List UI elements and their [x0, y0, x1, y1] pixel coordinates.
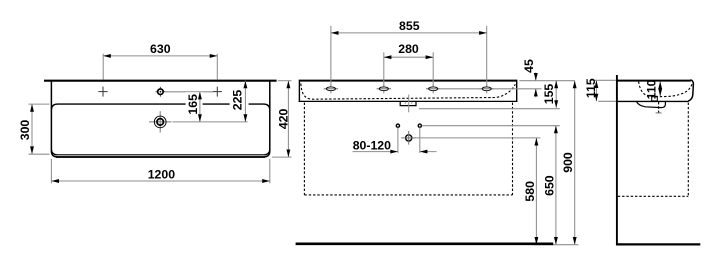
wall line	[616, 75, 618, 246]
dim 110	[659, 81, 661, 96]
basin back edge (thick top line)	[44, 80, 277, 82]
floor extension line	[533, 244, 579, 246]
bowl rim bottom line	[51, 149, 269, 154]
side top edge	[617, 80, 691, 82]
tap hole centerline link	[165, 91, 213, 93]
svg-text:155: 155	[542, 84, 556, 105]
svg-text:225: 225	[231, 90, 245, 111]
halo 165	[186, 92, 203, 116]
faucet cross left	[98, 87, 107, 97]
front right edge	[516, 80, 518, 102]
trap lip side	[636, 101, 665, 107]
dim 650	[555, 126, 557, 245]
dim 900	[574, 81, 576, 245]
dim 630 extension lines	[102, 54, 104, 80]
front bottom edge	[299, 100, 518, 102]
svg-text:855: 855	[399, 19, 420, 33]
svg-text:1200: 1200	[148, 168, 176, 182]
drain boss front	[400, 101, 416, 105]
svg-text:580: 580	[523, 181, 537, 202]
dim 855	[331, 32, 487, 34]
floor line side	[616, 243, 700, 245]
dim 280 extension lines	[383, 52, 385, 86]
svg-text:280: 280	[398, 42, 419, 56]
bolt hole right	[418, 124, 421, 127]
dim 630	[103, 55, 217, 57]
halo 110	[647, 82, 658, 95]
floor line front	[296, 243, 554, 246]
side bottom edge	[616, 100, 689, 102]
front left edge	[298, 80, 300, 102]
svg-text:420: 420	[276, 108, 290, 129]
waste line extension to 580	[416, 137, 540, 139]
side front profile	[688, 80, 693, 101]
center tap hole	[156, 87, 166, 97]
drain boss centerline	[408, 95, 410, 113]
svg-text:900: 900	[561, 152, 575, 173]
basin body outline plan	[51, 81, 269, 157]
dim 1200	[51, 180, 269, 182]
dim 1200 extension lines	[50, 159, 52, 184]
dim 280	[384, 56, 433, 58]
furniture hidden outline front (dashed)	[303, 103, 305, 195]
hidden bowl bottom (dashed)	[301, 84, 516, 100]
bolt hole left	[396, 124, 399, 127]
dim 225	[244, 81, 246, 122]
drain symbol	[149, 111, 171, 132]
dim 580	[535, 138, 537, 245]
dim 115	[595, 80, 597, 101]
waste outlet circle	[401, 131, 416, 145]
svg-text:115: 115	[584, 78, 598, 98]
hidden bowl side (dashed)	[639, 82, 693, 97]
dim 45	[535, 73, 537, 81]
drain hole side	[652, 96, 658, 101]
dim 115 extension lines	[593, 79, 616, 81]
top edge extension right	[519, 80, 575, 82]
drain centerline extension	[172, 121, 247, 123]
svg-text:110: 110	[645, 79, 659, 99]
dim 300	[31, 104, 33, 154]
svg-text:45: 45	[522, 59, 536, 73]
furniture hidden outline side (dashed)	[687, 103, 689, 197]
bowl rim top line	[51, 104, 269, 110]
basin body bottom edge emphasis	[56, 156, 265, 158]
drain pipe hidden (dashed)	[658, 102, 660, 114]
faucet cross right	[213, 87, 222, 97]
dim 80-120 extension lines	[397, 127, 399, 152]
front top edge	[299, 80, 516, 82]
tap hole slots (4)	[324, 84, 494, 93]
dim 300 extension lines	[29, 103, 50, 105]
svg-text:165: 165	[186, 94, 200, 115]
dim 420	[287, 81, 289, 157]
svg-text:630: 630	[150, 42, 171, 56]
hole centerline segments	[439, 88, 482, 90]
bolt line extension to 650	[422, 125, 560, 127]
svg-text:650: 650	[542, 175, 556, 196]
boss bottom extension	[419, 108, 560, 110]
dim 155	[555, 81, 557, 108]
svg-text:300: 300	[18, 120, 32, 141]
svg-text:80-120: 80-120	[353, 138, 391, 152]
halo 225	[230, 87, 249, 111]
dim 420 extension lines	[278, 80, 292, 82]
dim 855 extension lines	[330, 26, 332, 86]
dim 165	[199, 92, 201, 122]
dim 80-120	[353, 151, 398, 153]
